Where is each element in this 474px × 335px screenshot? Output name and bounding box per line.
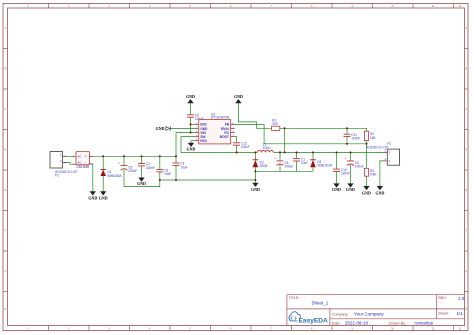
svg-text:C: C <box>4 108 6 111</box>
wire FB net <box>235 124 367 143</box>
wire C5 leads <box>123 156 125 165</box>
svg-text:BOOT: BOOT <box>220 135 229 139</box>
node gnd rail C4 <box>175 179 177 181</box>
node C10/vout <box>335 151 337 153</box>
node R1 drop/vout <box>284 151 286 153</box>
svg-text:GND: GND <box>137 181 146 186</box>
wire C8 leads <box>279 152 281 161</box>
svg-text:TITLE:: TITLE: <box>289 296 300 300</box>
svg-text:1/1: 1/1 <box>457 311 464 316</box>
node C3/+rail <box>159 155 161 157</box>
wire C12 bottom <box>236 145 238 152</box>
wire C1 leads <box>296 152 298 158</box>
diode D3 SMBJ5.0A <box>310 160 333 168</box>
ground under PAD <box>187 143 196 152</box>
node D2/mid rail <box>254 170 256 172</box>
node C5/+rail <box>123 155 125 157</box>
svg-text:GND: GND <box>234 94 243 99</box>
wire FB divider to R3 <box>366 144 368 169</box>
wire P1 pin2 to bridge AC2 <box>64 163 74 165</box>
ground under C9 <box>346 183 355 192</box>
wire C11 bottom <box>346 137 348 144</box>
node C1/vout <box>296 151 298 153</box>
ground under C2 <box>137 178 146 186</box>
svg-text:EasyEDA: EasyEDA <box>299 317 329 324</box>
svg-text:C: C <box>465 108 467 111</box>
svg-text:Sheet_1: Sheet_1 <box>312 300 329 305</box>
svg-text:2021-08-18: 2021-08-18 <box>345 321 369 326</box>
svg-text:H: H <box>4 308 6 311</box>
wire R1 node drop to VOUT <box>284 128 286 152</box>
svg-text:Sheet:: Sheet: <box>438 312 449 316</box>
wire C6 to EN2/VIN <box>190 117 192 132</box>
wire VIN riser <box>176 133 195 157</box>
wire C6 top to GND flag <box>190 103 192 115</box>
svg-text:GND: GND <box>251 187 260 192</box>
node C8/vout <box>279 151 281 153</box>
wire +VIN rail <box>90 155 177 157</box>
inductor L1 10uH <box>257 142 273 152</box>
svg-text:Company:: Company: <box>332 313 349 317</box>
net label GND left of U3 <box>156 126 171 131</box>
node gnd rail C3 <box>159 179 161 181</box>
svg-text:-: - <box>85 160 86 164</box>
node C11 top <box>346 127 348 129</box>
svg-text:10uF: 10uF <box>164 172 171 176</box>
ground under P2 pin1 <box>375 186 384 195</box>
svg-text:+: + <box>85 155 87 159</box>
svg-text:DB15MB: DB15MB <box>77 165 90 169</box>
svg-text:1.0: 1.0 <box>458 296 465 301</box>
svg-text:GND: GND <box>346 187 355 192</box>
svg-text:PAD: PAD <box>200 139 207 143</box>
svg-text:GND: GND <box>332 187 341 192</box>
ground under bridge <box>88 191 97 200</box>
wire SW pin to rail <box>181 137 257 153</box>
svg-text:SMBJ26A: SMBJ26A <box>107 174 122 178</box>
svg-text:220nF: 220nF <box>341 171 350 175</box>
svg-text:G: G <box>465 270 467 273</box>
node R1 right <box>284 127 286 129</box>
capacitor C12 100nF <box>233 142 250 150</box>
svg-text:GND: GND <box>362 190 371 195</box>
svg-text:10uF: 10uF <box>180 165 187 169</box>
node C12/SW <box>236 151 238 153</box>
EasyEDA logo <box>289 312 328 325</box>
svg-text:romanlee: romanlee <box>415 321 434 326</box>
svg-text:100nF: 100nF <box>351 137 360 141</box>
svg-text:+: + <box>345 157 347 161</box>
ground under D1 <box>99 191 108 200</box>
svg-text:220nF: 220nF <box>146 166 155 170</box>
wire C2 leads <box>141 156 143 163</box>
resistor R3 5.8K <box>364 168 377 176</box>
wire R1 right to R2 top <box>280 128 367 131</box>
resistor R2 18K <box>364 131 376 140</box>
svg-text:SS26: SS26 <box>260 164 268 168</box>
svg-text:P1: P1 <box>55 173 59 177</box>
ground under C10 <box>332 183 341 192</box>
capacitor C5 220uF <box>118 161 137 173</box>
wire C11 top <box>346 128 348 134</box>
capacitor C10 220nF <box>333 168 350 176</box>
wire PAD pin to GND <box>191 141 195 143</box>
svg-text:Date:: Date: <box>332 322 341 326</box>
svg-text:100uF: 100uF <box>284 165 293 169</box>
node FB/R2/R3 <box>365 143 367 145</box>
title block <box>287 295 465 326</box>
wire EN2 link <box>191 123 195 125</box>
connector P2 <box>366 142 400 165</box>
ground under R3 <box>362 186 371 195</box>
wire D2 bottom to ground rail <box>254 167 256 182</box>
node VIN <box>189 131 191 133</box>
wire C3 leads <box>159 156 161 169</box>
svg-text:H: H <box>465 308 467 311</box>
node D2/SW <box>254 151 256 153</box>
node C9/vout <box>349 151 351 153</box>
capacitor C6 100nF <box>187 113 204 121</box>
node C4/VIN riser <box>175 155 177 157</box>
svg-text:Drawn By:: Drawn By: <box>389 322 406 326</box>
svg-text:ST1S14PHR: ST1S14PHR <box>211 116 230 120</box>
wire P1 pin1 to bridge AC1 <box>64 155 74 157</box>
wire BOOT to C12 <box>235 137 237 143</box>
svg-text:18K: 18K <box>370 136 377 140</box>
svg-text:GND: GND <box>99 196 108 201</box>
wire C9 leads <box>350 152 352 161</box>
wire bridge minus to GND <box>90 164 93 191</box>
svg-text:Your Company: Your Company <box>354 312 384 317</box>
wire D3 leads <box>312 152 314 159</box>
node EN2 <box>189 123 191 125</box>
bridge rectifier DB15MB <box>73 152 93 170</box>
svg-text:100uF: 100uF <box>355 165 364 169</box>
svg-text:+: + <box>274 157 276 161</box>
wire C10 leads <box>336 152 338 169</box>
wire lower rail C5 to C3 <box>124 180 160 187</box>
svg-text:D: D <box>465 149 467 152</box>
svg-text:GND: GND <box>186 94 195 99</box>
wire D1 bottom lead <box>102 176 104 191</box>
node C2/+rail <box>140 155 142 157</box>
capacitor C4 10uF <box>173 162 188 170</box>
node gnd rail D2 <box>254 179 256 181</box>
wire R3 bottom to GND <box>366 176 368 186</box>
ground flag above R1 net <box>234 94 243 103</box>
node D1/+rail <box>102 155 104 157</box>
ground flag above C6 <box>186 94 195 103</box>
diode D2 SS26 <box>253 160 268 168</box>
capacitor C11 100nF <box>344 133 361 141</box>
resistor R1 30K <box>272 118 280 130</box>
capacitor C1 10uF <box>293 157 308 165</box>
svg-text:30K: 30K <box>272 122 279 126</box>
wire D2 top <box>254 152 256 159</box>
wire mid ground rail <box>255 170 313 172</box>
wire C4 leads <box>175 156 177 163</box>
svg-text:+: + <box>118 161 120 165</box>
svg-text:GND: GND <box>187 146 196 151</box>
capacitor C8 100uF <box>274 157 293 169</box>
wire R2 bottom <box>366 141 368 144</box>
svg-text:5.8K: 5.8K <box>370 173 377 177</box>
wire GND flag to R1 <box>238 103 271 128</box>
svg-text:REV:: REV: <box>438 296 446 300</box>
svg-text:GND: GND <box>375 190 384 195</box>
svg-text:10uH: 10uH <box>263 146 271 150</box>
svg-text:D: D <box>4 149 6 152</box>
capacitor C9 100uF <box>345 157 364 169</box>
svg-text:SMBJ5.0A: SMBJ5.0A <box>317 164 333 168</box>
node C11 bottom <box>346 143 348 145</box>
svg-text:WJ128V-5.0-2P: WJ128V-5.0-2P <box>366 146 388 150</box>
op IC U3 ST1S14PHR <box>195 112 235 144</box>
diode D1 SMBJ26A <box>100 169 122 177</box>
wire ground rail <box>160 179 256 181</box>
svg-text:220uF: 220uF <box>128 169 137 173</box>
svg-text:GND: GND <box>156 126 165 131</box>
ground under D2 <box>251 183 260 193</box>
capacitor C3 10uF <box>156 169 171 177</box>
svg-text:10uF: 10uF <box>301 161 308 165</box>
connector P1 <box>50 152 77 178</box>
node D3/vout <box>312 151 314 153</box>
svg-text:GND: GND <box>88 196 97 201</box>
capacitor C2 220nF <box>138 162 155 170</box>
wire D1 top lead <box>102 156 104 169</box>
svg-text:100nF: 100nF <box>241 145 250 149</box>
wire P2 pin1 to GND <box>380 161 383 186</box>
wire VOUT rail <box>273 151 383 153</box>
wire GND net label to GND pin <box>171 128 195 130</box>
svg-text:G: G <box>4 270 6 273</box>
